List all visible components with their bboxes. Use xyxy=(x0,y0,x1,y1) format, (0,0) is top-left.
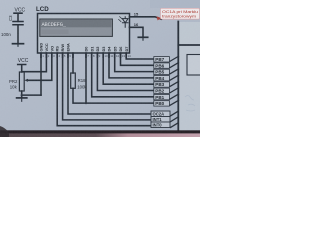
MCU box top edge xyxy=(178,44,200,46)
bus entry INT1 xyxy=(170,117,179,122)
bus entry PB5 xyxy=(170,69,179,75)
film grain overlay xyxy=(0,0,200,137)
wiper arrow of PR2 xyxy=(24,79,28,82)
resistor R18 xyxy=(71,73,76,88)
pin numbers 7-14 xyxy=(87,54,131,58)
LCD module box xyxy=(38,14,130,54)
wire D6 to PB6 xyxy=(121,53,155,65)
VCC power symbol (top-left) xyxy=(14,13,22,21)
net label PB2 xyxy=(154,88,170,93)
wire VCC net to LCD pin2 xyxy=(23,53,46,72)
net label PB0 xyxy=(154,101,170,106)
net label INT0 (framed) xyxy=(151,122,170,128)
bus entry PB6 xyxy=(170,62,179,68)
junction D0/R18 xyxy=(85,102,87,104)
connector box right edge xyxy=(187,55,202,76)
net label PB5 xyxy=(154,69,170,74)
capacitor C3 xyxy=(13,22,23,25)
wire D4 to PB4 xyxy=(109,53,154,78)
annotation leader arrow xyxy=(157,16,163,20)
pin stubs below LCD xyxy=(41,53,126,58)
bus entry OC2A xyxy=(170,111,179,116)
wire wiper VO net to LCD pin3 xyxy=(27,53,52,80)
wire GND net LCD pin1 xyxy=(40,53,42,95)
bus entry PB7 xyxy=(170,56,179,62)
wire PR2 bottom / GND net xyxy=(22,91,41,98)
ground (below pin 16) xyxy=(138,37,147,40)
red annotation note xyxy=(161,8,200,19)
wire pin16 to ground xyxy=(130,27,144,37)
lighter zone right of MCU edge xyxy=(179,22,200,131)
net label PB4 xyxy=(154,76,170,81)
ground (below PR2) xyxy=(17,98,27,101)
wire R18 top to LCD xyxy=(72,53,74,73)
wire RS to INT0 xyxy=(57,53,151,126)
faint scribbles right margin xyxy=(185,96,195,112)
wire D1 to PB1 xyxy=(92,53,154,97)
wire R18 bottom to PB0 net xyxy=(73,88,86,103)
VCC power symbol (above PR2) xyxy=(18,65,26,73)
net label OC2A (framed) xyxy=(151,111,170,117)
wire D7 to PB7 xyxy=(126,53,154,59)
wire pin15 net (to annotation) xyxy=(130,17,162,19)
bus entry PB0 xyxy=(170,100,179,106)
wire C3 bottom to ground xyxy=(17,25,19,44)
bus entry PB3 xyxy=(170,81,179,87)
wire D0 to PB0 xyxy=(86,53,154,103)
wire D5 to PB5 xyxy=(115,53,154,72)
bottom-left dark corner xyxy=(0,126,9,137)
subtle shade top-right xyxy=(150,0,200,8)
wire D3 to PB3 xyxy=(103,53,154,84)
potentiometer PR2 xyxy=(19,72,24,91)
wire R/W to INT1 xyxy=(63,53,151,120)
paper background xyxy=(0,0,200,137)
pin numbers 1-6 xyxy=(42,54,71,58)
bus entry INT0 xyxy=(170,122,179,127)
slashes into MCU (bus entries) xyxy=(170,56,179,128)
photo border bottom band xyxy=(0,130,200,133)
net label PB7 xyxy=(154,57,170,62)
wire ENA to OC2A xyxy=(68,53,151,114)
wire D2 to PB2 xyxy=(97,53,154,91)
net label INT1 (framed) xyxy=(151,117,170,123)
junction PR2 bottom xyxy=(21,94,23,96)
bus entry PB4 xyxy=(170,75,179,81)
ground (below C3) xyxy=(13,44,24,47)
LCD backlight LED (pins 15/16) xyxy=(119,17,128,28)
net label PB1 xyxy=(154,94,170,99)
bus entry PB1 xyxy=(170,94,179,100)
MCU box left edge (bus) xyxy=(177,22,179,132)
LCD display area xyxy=(40,19,113,36)
net label PB6 xyxy=(154,63,170,68)
bus entry PB2 xyxy=(170,88,179,94)
net label PB3 xyxy=(154,82,170,87)
